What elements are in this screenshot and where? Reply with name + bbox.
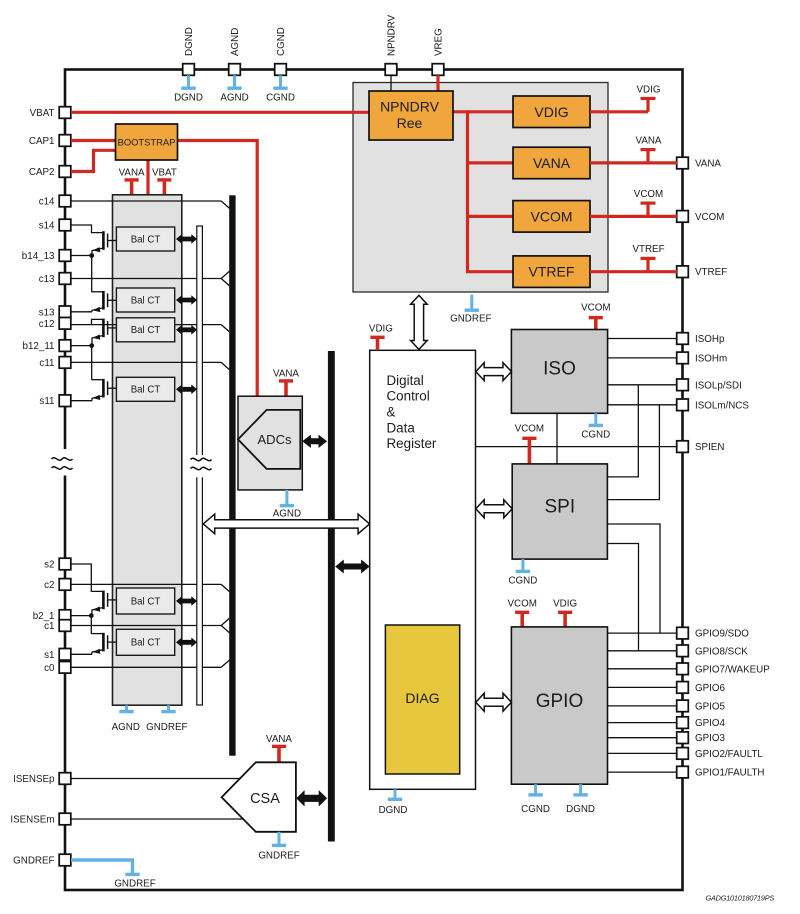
wire VDIG rail (red) (590, 110, 648, 113)
pin ISOHm (677, 352, 689, 364)
pin label CAP1 (29, 136, 55, 147)
pin s2 (59, 558, 71, 570)
transistor Q3 (cell12 balance) (92, 319, 117, 346)
svg-text:GPIO4: GPIO4 (695, 718, 725, 729)
pin ISOLp/SDI (677, 379, 689, 391)
pin label SPIEN (695, 442, 724, 453)
block GPIO (511, 627, 607, 784)
svg-text:ISENSEp: ISENSEp (13, 774, 55, 785)
wire b14_13 node (71, 256, 92, 293)
pin label VBAT (30, 108, 55, 119)
wire s13 to Q2 (71, 311, 92, 313)
svg-text:Bal CT: Bal CT (131, 638, 161, 649)
svg-text:s2: s2 (44, 560, 54, 571)
svg-text:Register: Register (387, 436, 437, 451)
pin c11 (59, 357, 71, 369)
wire VBAT to NPNDRV block (red) (71, 111, 369, 114)
svg-text:VDIG: VDIG (369, 324, 393, 335)
pin VBAT (59, 107, 71, 119)
svg-text:DGND: DGND (566, 804, 595, 815)
arrow Bal CT 4 to mux (176, 385, 197, 395)
wire cell tap c14 (71, 201, 229, 208)
pin CAP2 (59, 166, 71, 178)
pin label GNDREF (13, 856, 54, 867)
break squiggle on mux bar (191, 455, 212, 477)
svg-text:c2: c2 (44, 580, 54, 591)
svg-text:SPIEN: SPIEN (695, 442, 724, 453)
ground DGND (379, 789, 408, 816)
junction b14_13 (89, 253, 94, 258)
ground DGND (566, 784, 595, 815)
pin label s11 (39, 396, 54, 407)
pin GPIO8/SCK (677, 645, 689, 657)
svg-text:NPNDRV: NPNDRV (380, 99, 440, 115)
svg-text:NPNDRV: NPNDRV (387, 14, 398, 56)
wire ISOLp/SDI (608, 384, 677, 386)
pin s1 (59, 649, 71, 661)
svg-text:AGND: AGND (230, 28, 241, 56)
svg-text:Bal CT: Bal CT (131, 295, 161, 306)
pin ISOHp (677, 333, 689, 345)
transistor Q4 (cell11 balance) (92, 379, 117, 401)
svg-text:CAP1: CAP1 (29, 136, 55, 147)
svg-text:Ree: Ree (397, 115, 423, 131)
svg-text:ADCs: ADCs (258, 432, 292, 447)
pin label s2 (44, 560, 54, 571)
svg-text:GPIO5: GPIO5 (695, 701, 725, 712)
regulator U1 NPNDRV Ree (369, 91, 453, 140)
wire ISOHm (608, 357, 677, 359)
svg-text:VANA: VANA (266, 734, 292, 745)
svg-text:Bal CT: Bal CT (131, 596, 161, 607)
svg-text:GPIO: GPIO (536, 691, 584, 712)
svg-text:DGND: DGND (174, 92, 203, 103)
node AGND top label (230, 28, 241, 56)
block DIAG (385, 625, 459, 774)
svg-text:VCOM: VCOM (581, 303, 610, 314)
wire NPNDRV block to VDIG block and red trunk (453, 110, 513, 271)
svg-text:VANA: VANA (695, 159, 721, 170)
pin VTREF (677, 266, 689, 278)
svg-text:GADG1010180719PS: GADG1010180719PS (706, 894, 775, 903)
wire VTREF rail to pin (red) (590, 270, 677, 273)
wire trunk to VTREF block (466, 270, 513, 273)
svg-text:ISENSEm: ISENSEm (10, 815, 54, 826)
svg-text:ISOHp: ISOHp (695, 334, 725, 345)
transistor Q5 (cell2 balance) (71, 564, 116, 616)
pin label VTREF (695, 267, 727, 278)
wire cell tap c0 (71, 660, 229, 667)
node VREG top label (434, 28, 445, 56)
wire GPIO8 (608, 650, 678, 652)
wire NPNDRV pin to NPNDRV block (390, 75, 392, 91)
svg-text:c1: c1 (44, 621, 54, 632)
arrow mux bus to digital (203, 514, 369, 534)
svg-text:VDIG: VDIG (637, 84, 661, 95)
svg-text:Bal CT: Bal CT (131, 234, 161, 245)
junction b12_11 (89, 343, 94, 348)
svg-text:DGND: DGND (184, 27, 195, 56)
svg-text:VBAT: VBAT (30, 108, 55, 119)
power symbol VANA (119, 168, 145, 196)
power symbol VCOM (581, 303, 610, 330)
ground GNDREF (146, 705, 187, 733)
wire VCOM rail to pin (red) (590, 215, 677, 218)
svg-text:VCOM: VCOM (634, 189, 663, 200)
power symbol VDIG (369, 324, 393, 351)
svg-text:GNDREF: GNDREF (13, 856, 54, 867)
wire ISENSEp (71, 778, 240, 780)
pin label c0 (44, 663, 55, 674)
chip outline border (65, 70, 683, 891)
wire GPIO7 (608, 668, 678, 670)
block Bal CT 5 (116, 588, 174, 614)
regulator VTREF (513, 256, 590, 288)
pin CGND (top) (275, 64, 287, 76)
pin label ISOHp (695, 334, 725, 345)
wire ISO to SPI (556, 413, 558, 464)
ground CGND (508, 559, 537, 586)
svg-text:VCOM: VCOM (695, 212, 724, 223)
transistor Q1 (cell14 balance) (71, 225, 116, 256)
arrow bus2 to digital (335, 560, 370, 574)
pin b2_1 (59, 610, 71, 622)
ground CGND (266, 75, 295, 103)
ground AGND (220, 75, 248, 103)
ground CGND (581, 413, 610, 440)
block Digital Control and Data Register (370, 350, 476, 789)
wire GPIO6 (608, 686, 678, 688)
pin label GPIO2/FAULTL (695, 749, 763, 760)
arrow ADCs to bus2 (302, 435, 327, 448)
svg-text:c0: c0 (44, 663, 55, 674)
arrow CSA to bus2 (296, 790, 327, 806)
svg-text:BOOTSTRAP: BOOTSTRAP (118, 137, 176, 148)
pin label ISOHm (695, 353, 727, 364)
wire s1 to Q6 (71, 653, 92, 655)
block Bal CT 4 (116, 377, 174, 401)
svg-text:c12: c12 (39, 319, 55, 330)
pin b12_11 (59, 340, 71, 352)
pin AGND (top) (229, 64, 241, 76)
svg-text:CGND: CGND (266, 92, 295, 103)
pin c14 (59, 195, 71, 207)
arrow Bal CT 5 to mux (176, 596, 197, 606)
block Bal CT 1 (116, 227, 174, 251)
wire SPIEN (476, 446, 678, 448)
wire SPI to GPIO8/SCK (607, 544, 638, 651)
svg-text:c13: c13 (39, 274, 55, 285)
pin label c14 (39, 197, 55, 208)
wire VREG pin to NPNDRV block (red) (436, 75, 439, 92)
ground AGND (273, 490, 301, 520)
ground DGND (174, 75, 203, 103)
pin c13 (59, 273, 71, 285)
pin label s14 (39, 221, 55, 232)
power symbol VANA (273, 369, 299, 397)
pin b14_13 (59, 250, 71, 262)
pin label ISOLp/SDI (695, 380, 742, 391)
svg-text:VDIG: VDIG (534, 104, 568, 120)
ground GNDREF (450, 295, 491, 325)
pin c2 (59, 579, 71, 591)
block SPI (512, 464, 607, 559)
pin label GPIO1/FAULTH (695, 768, 765, 779)
svg-text:VCOM: VCOM (515, 424, 544, 435)
wire ISOHp (608, 338, 677, 340)
svg-text:VBAT: VBAT (152, 168, 177, 179)
svg-text:Bal CT: Bal CT (131, 325, 161, 336)
wire cell tap c12 (71, 325, 229, 332)
wire CAP1 to BOOTSTRAP (red) (71, 139, 116, 142)
pin label GPIO7/WAKEUP (695, 664, 770, 675)
pin GNDREF (59, 854, 71, 866)
regulator VDIG (513, 96, 590, 128)
svg-text:c14: c14 (39, 197, 55, 208)
svg-text:VANA: VANA (636, 135, 662, 146)
svg-text:ISOLm/NCS: ISOLm/NCS (695, 400, 749, 411)
svg-text:VTREF: VTREF (695, 267, 727, 278)
power symbol VANA (636, 135, 662, 163)
svg-text:VANA: VANA (533, 155, 571, 171)
break squiggle on left border (52, 449, 73, 476)
pin s11 (59, 395, 71, 407)
svg-text:VANA: VANA (119, 168, 145, 179)
svg-text:c11: c11 (39, 358, 54, 369)
junction b2_1 (89, 613, 94, 618)
pin label c1 (44, 621, 54, 632)
svg-text:CGND: CGND (521, 804, 550, 815)
pin GPIO4 (677, 717, 689, 729)
svg-text:GPIO8/SCK: GPIO8/SCK (695, 646, 748, 657)
wire VANA rail to pin (red) (590, 161, 677, 164)
svg-text:GPIO3: GPIO3 (695, 733, 725, 744)
svg-text:GPIO7/WAKEUP: GPIO7/WAKEUP (695, 664, 770, 675)
pin c12 (59, 318, 71, 330)
bus bar 1 (analog front-end bus) (229, 195, 235, 755)
svg-text:VTREF: VTREF (632, 244, 664, 255)
pin label CAP2 (29, 167, 55, 178)
svg-text:GNDREF: GNDREF (146, 722, 187, 733)
svg-text:VCOM: VCOM (507, 599, 536, 610)
svg-text:ISO: ISO (543, 359, 576, 380)
regulator VCOM (513, 201, 590, 233)
wire GNDREF pin (blue) (71, 860, 133, 873)
block BOOTSTRAP (116, 124, 178, 160)
block Bal CT 2 (116, 288, 174, 312)
pin NPNDRV (top) (385, 64, 397, 76)
svg-text:VCOM: VCOM (531, 208, 573, 224)
pin GPIO9/SDO (677, 627, 689, 639)
node DGND top label (184, 27, 195, 56)
pin label VANA (695, 159, 721, 170)
block ISO (511, 330, 607, 414)
svg-text:CAP2: CAP2 (29, 167, 55, 178)
node NPNDRV top label (387, 14, 398, 56)
wire b12_11 node (71, 346, 92, 380)
ground AGND (112, 705, 140, 733)
svg-text:s13: s13 (39, 307, 55, 318)
pin ISENSEp (59, 773, 71, 785)
power symbol VCOM (515, 424, 544, 464)
svg-text:CSA: CSA (250, 791, 280, 807)
arrow digital to ISO (476, 363, 512, 381)
wire trunk to VANA block (468, 161, 514, 164)
op-amp CSA (222, 762, 296, 832)
op-amp ADCs pentagon (238, 410, 300, 469)
pin VCOM (677, 211, 689, 223)
wire trunk to VCOM block (468, 215, 514, 218)
svg-text:CGND: CGND (581, 430, 610, 441)
pin GPIO3 (677, 732, 689, 744)
wire cell tap c11 (71, 362, 229, 369)
svg-text:GPIO9/SDO: GPIO9/SDO (695, 629, 749, 640)
svg-text:SPI: SPI (544, 497, 575, 518)
svg-text:AGND: AGND (112, 722, 140, 733)
pin GPIO2/FAULTL (677, 748, 689, 760)
pin GPIO6 (677, 682, 689, 694)
wire cell tap c1 (71, 618, 229, 632)
wire s11 to Q4 (71, 400, 92, 402)
pin VANA (677, 157, 689, 169)
wire b2_1 node (71, 616, 91, 634)
arrow digital to SPI (476, 500, 512, 518)
arrow digital to GPIO (476, 693, 512, 711)
svg-text:VDIG: VDIG (553, 599, 577, 610)
pin s13 (59, 306, 71, 318)
arrow Bal CT 2 to mux (176, 295, 197, 305)
pin label GPIO3 (695, 733, 725, 744)
pin label c2 (44, 580, 54, 591)
pin label c13 (39, 274, 55, 285)
pin label b14_13 (22, 251, 55, 262)
pin CAP1 (59, 135, 71, 147)
ground GNDREF (114, 871, 155, 890)
pin label s13 (39, 307, 55, 318)
svg-text:s14: s14 (39, 221, 55, 232)
wire GPIO1 (608, 771, 678, 773)
wire CAP2 to BOOTSTRAP (red) (71, 150, 116, 171)
arrow LDO region to digital (411, 295, 428, 349)
block Bal CT 6 (116, 629, 174, 655)
arrow Bal CT 1 to mux (176, 234, 197, 244)
power symbol VTREF (632, 244, 664, 272)
wire cell tap c2 (71, 584, 229, 591)
svg-text:ISOHm: ISOHm (695, 353, 727, 364)
power symbol VDIG (637, 84, 661, 112)
wire SPI to ISOLm/NCS (607, 405, 659, 500)
pin label ISOLm/NCS (695, 400, 749, 411)
pin GPIO7/WAKEUP (677, 663, 689, 675)
wire GPIO4 (608, 722, 678, 724)
wire ISOLm/NCS (608, 404, 677, 406)
pin DGND (top) (183, 64, 195, 76)
svg-text:Control: Control (387, 389, 430, 404)
pin label GPIO4 (695, 718, 725, 729)
LDO regulator region (353, 83, 608, 293)
figure code GADG1010180719PS (706, 894, 775, 903)
wire SPI to ISOLp/SDI (607, 385, 638, 477)
svg-text:VREG: VREG (434, 28, 445, 56)
pin label ISENSEp (13, 774, 55, 785)
arrow Bal CT 6 to mux (176, 638, 197, 648)
arrow Bal CT 3 to mux (176, 325, 197, 335)
pin VREG (top) (432, 64, 444, 76)
svg-text:CGND: CGND (276, 27, 287, 56)
pin label s1 (44, 650, 54, 661)
pin c1 (59, 620, 71, 632)
regulator VANA (513, 147, 590, 179)
svg-text:Data: Data (387, 420, 416, 435)
wire GPIO9 (608, 632, 678, 634)
svg-text:Bal CT: Bal CT (131, 385, 161, 396)
pin GPIO1/FAULTH (677, 766, 689, 778)
pin label c12 (39, 319, 55, 330)
ground CGND (521, 784, 550, 815)
pin s14 (59, 219, 71, 231)
svg-text:GPIO6: GPIO6 (695, 683, 725, 694)
svg-text:VTREF: VTREF (529, 264, 575, 280)
bus bar 2 (digital bus) (328, 351, 335, 842)
pin GPIO5 (677, 700, 689, 712)
pin label VCOM (695, 212, 724, 223)
svg-text:b12_11: b12_11 (23, 341, 55, 352)
wire BOOTSTRAP to cell stack (red) (146, 160, 149, 195)
pin label c11 (39, 358, 54, 369)
wire BOOTSTRAP to ADCs (red) (178, 141, 258, 397)
wire SPI to GPIO9/SDO (607, 524, 660, 633)
svg-text:Digital: Digital (387, 373, 424, 388)
pin label GPIO9/SDO (695, 629, 749, 640)
svg-text:b14_13: b14_13 (22, 251, 55, 262)
svg-text:GNDREF: GNDREF (258, 851, 299, 862)
pin c0 (59, 662, 71, 674)
svg-text:GPIO1/FAULTH: GPIO1/FAULTH (695, 768, 765, 779)
wire cell tap c13 (71, 271, 229, 285)
block ADCs outer (238, 396, 302, 490)
svg-text:&: & (387, 405, 396, 420)
svg-text:ISOLp/SDI: ISOLp/SDI (695, 380, 742, 391)
pin ISENSEm (59, 813, 71, 825)
pin label b2_1 (33, 611, 55, 622)
svg-text:DIAG: DIAG (405, 690, 439, 706)
svg-text:DGND: DGND (379, 805, 408, 816)
svg-text:AGND: AGND (220, 92, 248, 103)
svg-text:GNDREF: GNDREF (114, 879, 155, 890)
cell measurement stack block (113, 195, 182, 705)
wire GPIO5 (608, 705, 678, 707)
svg-text:s11: s11 (39, 396, 54, 407)
transistor Q2 (cell13 balance) (92, 291, 117, 312)
wire GPIO2 (608, 752, 678, 754)
svg-text:GPIO2/FAULTL: GPIO2/FAULTL (695, 749, 763, 760)
pin ISOLm/NCS (677, 399, 689, 411)
node CGND top label (276, 27, 287, 56)
svg-text:CGND: CGND (508, 576, 537, 587)
mux bus bar (thin) upper part (197, 226, 203, 456)
power symbol VBAT (152, 168, 177, 196)
ground GNDREF (258, 832, 299, 862)
pin label ISENSEm (10, 815, 54, 826)
pin label b12_11 (23, 341, 55, 352)
svg-text:GNDREF: GNDREF (450, 314, 491, 325)
svg-text:s1: s1 (44, 650, 54, 661)
power symbol VANA (266, 734, 292, 762)
pin label GPIO8/SCK (695, 646, 748, 657)
svg-text:VANA: VANA (273, 369, 299, 380)
block Bal CT 3 (116, 318, 174, 342)
pin label GPIO6 (695, 683, 725, 694)
